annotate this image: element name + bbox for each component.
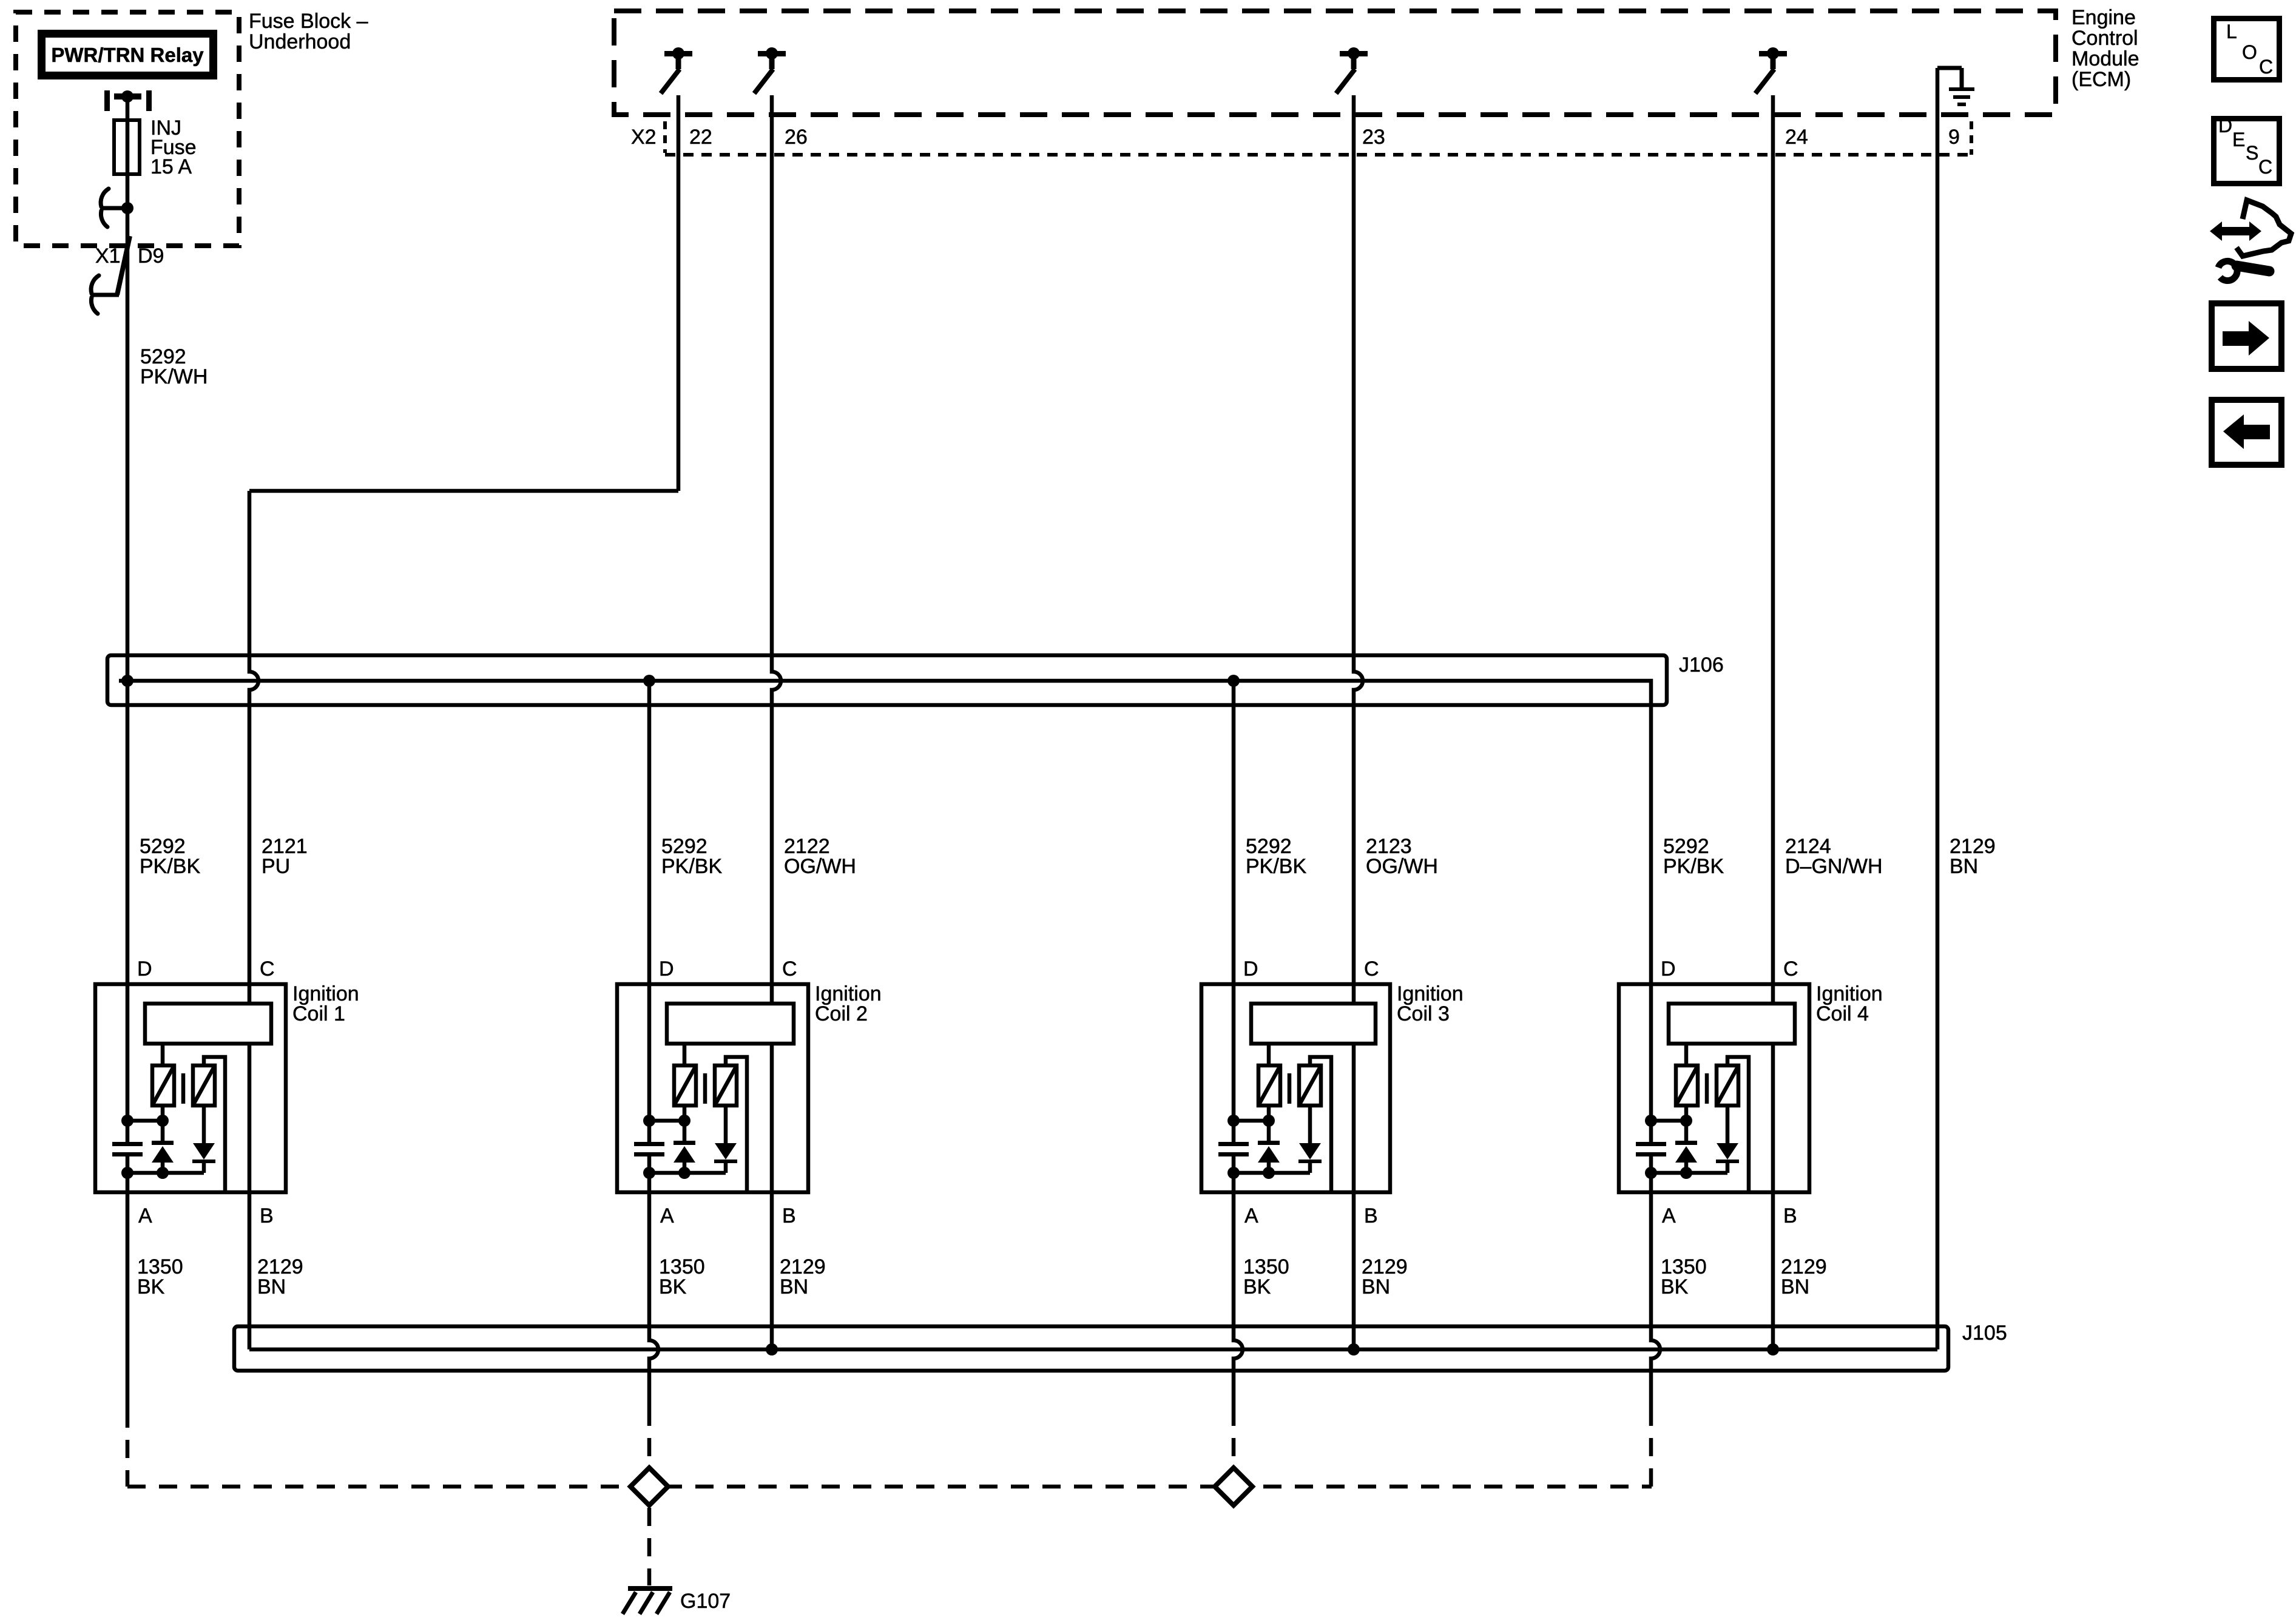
coil 4 pin C label: [1783, 957, 1798, 981]
wire 2129 BN coil4 pin B to J105: [1771, 1044, 1775, 1349]
svg-text:Fuse Block –: Fuse Block –: [249, 10, 368, 33]
wire label 2129 BN: [1950, 835, 1996, 878]
wire 1350 BK coil2 pin A down through J105: [649, 1156, 658, 1468]
svg-text:BN: BN: [1781, 1275, 1809, 1298]
wire 2129 BN from pin9 down to J105: [1936, 68, 1940, 1349]
coil 3 pin D label: [1243, 957, 1258, 981]
wire pin22 down and jog left (2121 circuit): [249, 95, 678, 491]
label Ignition Coil 2: [815, 982, 882, 1025]
wire from relay through fuse down to J106: [126, 96, 130, 681]
coil 2 pin D label: [659, 957, 674, 981]
svg-text:D: D: [1243, 957, 1258, 981]
wire 2129 BN coil1 pin B to J105: [248, 1044, 252, 1349]
svg-text:Coil 1: Coil 1: [292, 1002, 345, 1025]
svg-text:BN: BN: [1950, 855, 1978, 878]
wire 5292 PK/BK to coil3 pin D: [1232, 681, 1236, 1142]
svg-text:C: C: [1364, 957, 1379, 981]
coil 2 pin A label: [660, 1204, 674, 1227]
ignition coil 1: [95, 984, 286, 1192]
pin 22 number label: [689, 126, 712, 149]
coil 1 pin D label: [137, 957, 152, 981]
svg-text:PK/BK: PK/BK: [1246, 855, 1306, 878]
svg-text:A: A: [1662, 1204, 1676, 1227]
svg-text:BK: BK: [659, 1275, 687, 1298]
icon LOC box: [2214, 19, 2280, 80]
coil 1 pin A label: [138, 1204, 152, 1227]
wire 2122 OG/WH from pin26 through J106 to coil2 pin C: [772, 95, 781, 1004]
svg-text:BN: BN: [780, 1275, 808, 1298]
svg-text:BN: BN: [1362, 1275, 1390, 1298]
ground symbol G107: [623, 1586, 672, 1614]
coil 4 wire label 2129 BN: [1781, 1255, 1827, 1298]
svg-text:L: L: [2226, 21, 2237, 42]
svg-text:24: 24: [1785, 126, 1808, 149]
svg-text:B: B: [1364, 1204, 1378, 1227]
connector X1/D9 slash and hook: [91, 236, 130, 314]
wire label 2122 OG/WH: [784, 835, 856, 878]
fuse block label: [249, 10, 368, 53]
coil 1 pin B label: [260, 1204, 274, 1227]
splice diamond on coil3 ground: [1215, 1468, 1252, 1505]
wire label 5292 PK/BK: [140, 835, 200, 878]
ECM pin 9 internal ground: [1937, 68, 1974, 106]
svg-text:X2: X2: [631, 126, 657, 149]
coil 2 pin C label: [782, 957, 797, 981]
svg-text:Coil 3: Coil 3: [1397, 1002, 1450, 1025]
svg-text:B: B: [1783, 1204, 1797, 1227]
ECM pin 24: [1755, 47, 1787, 93]
svg-text:BK: BK: [1661, 1275, 1689, 1298]
coil 3 pin B label: [1364, 1204, 1378, 1227]
svg-text:Coil 2: Coil 2: [815, 1002, 868, 1025]
coil 3 pin A label: [1244, 1204, 1258, 1227]
dashed wire diamond to ground G107: [647, 1508, 652, 1585]
splice pack J106: [107, 655, 1667, 1142]
wire 2129 BN coil3 pin B to J105: [1352, 1044, 1356, 1349]
ECM connector strip dotted line: [665, 153, 1971, 157]
wire 2123 OG/WH from pin23 through J106 to coil3 pin C: [1354, 95, 1363, 1004]
connector strip left dashes: [663, 121, 667, 153]
wire label 2123 OG/WH: [1366, 835, 1438, 878]
wire label 5292 PK/BK: [1246, 835, 1306, 878]
svg-text:X1: X1: [95, 245, 121, 268]
svg-text:OG/WH: OG/WH: [1366, 855, 1438, 878]
wire 1350 BK coil1 pin A down: [126, 1156, 130, 1487]
svg-text:A: A: [660, 1204, 674, 1227]
svg-text:PWR/TRN Relay: PWR/TRN Relay: [51, 44, 204, 66]
svg-text:C: C: [260, 957, 275, 981]
icon arrow left box: [2212, 400, 2281, 465]
svg-text:PK/BK: PK/BK: [1663, 855, 1724, 878]
svg-text:9: 9: [1948, 126, 1960, 149]
wire 1350 BK coil4 pin A down through J105: [1651, 1156, 1660, 1487]
svg-text:BK: BK: [137, 1275, 165, 1298]
svg-text:D: D: [659, 957, 674, 981]
coil 4 pin B label: [1783, 1204, 1797, 1227]
svg-text:C: C: [782, 957, 797, 981]
wire 2129 BN coil2 pin B to J105: [770, 1044, 774, 1349]
svg-text:PU: PU: [262, 855, 290, 878]
wire label 2124 D-GN/WH: [1785, 835, 1883, 878]
wire label 2121 PU: [262, 835, 308, 878]
label J105: [1962, 1322, 2007, 1345]
coil 1 wire label 2129 BN: [257, 1255, 303, 1298]
pin 9 number label: [1948, 126, 1960, 149]
dashed ground line to G107: [127, 1485, 1652, 1489]
wire label 5292 PK/WH: [140, 345, 208, 388]
splice diamond on coil2 ground: [630, 1468, 668, 1505]
wire label 5292 PK/BK: [1663, 835, 1724, 878]
label Ignition Coil 4: [1816, 982, 1883, 1025]
wire label 5292 PK/BK: [661, 835, 722, 878]
coil 3 wire label 1350 BK: [1243, 1255, 1289, 1298]
ECM pin 23: [1336, 47, 1368, 93]
relay PWR/TRN Relay: [42, 34, 214, 76]
svg-text:C: C: [2258, 156, 2272, 178]
svg-text:J105: J105: [1962, 1322, 2007, 1345]
wire coil1 D line through box (5292 PK/BK): [126, 681, 130, 1142]
svg-text:D9: D9: [138, 245, 164, 268]
coil 2 pin B label: [782, 1204, 796, 1227]
pin 26 number label: [785, 126, 808, 149]
switch contact hook inside fuse block: [101, 189, 133, 227]
wire 2121 PU down through J106 to coil1 pin C: [249, 491, 258, 1004]
svg-text:PK/WH: PK/WH: [140, 365, 208, 388]
svg-text:Control: Control: [2071, 27, 2138, 50]
label X2: [631, 126, 657, 149]
pin 23 number label: [1362, 126, 1385, 149]
relay contact symbol: [104, 90, 152, 111]
svg-text:D–GN/WH: D–GN/WH: [1785, 855, 1883, 878]
svg-text:A: A: [138, 1204, 152, 1227]
fuse block underhood dashed box: [16, 12, 239, 246]
label G107: [680, 1590, 731, 1613]
connector strip right dashes: [1970, 121, 1973, 155]
svg-text:C: C: [1783, 957, 1798, 981]
svg-text:PK/BK: PK/BK: [140, 855, 200, 878]
label Ignition Coil 1: [292, 982, 359, 1025]
svg-text:Module: Module: [2071, 47, 2139, 70]
icon DESC box: [2214, 115, 2280, 184]
svg-text:23: 23: [1362, 126, 1385, 149]
svg-text:S: S: [2246, 142, 2258, 164]
svg-text:(ECM): (ECM): [2071, 68, 2131, 91]
svg-text:J106: J106: [1679, 653, 1724, 677]
ignition coil 2: [617, 984, 808, 1192]
svg-text:Underhood: Underhood: [249, 30, 351, 53]
ECM pin 22: [661, 47, 692, 93]
svg-text:26: 26: [785, 126, 808, 149]
coil 3 wire label 2129 BN: [1362, 1255, 1408, 1298]
ECM pin 26: [754, 47, 786, 93]
coil 2 wire label 2129 BN: [780, 1255, 826, 1298]
svg-text:D: D: [137, 957, 152, 981]
svg-text:B: B: [260, 1204, 274, 1227]
coil 3 pin C label: [1364, 957, 1379, 981]
svg-text:PK/BK: PK/BK: [661, 855, 722, 878]
svg-text:B: B: [782, 1204, 796, 1227]
coil 4 pin A label: [1662, 1204, 1676, 1227]
wire 1350 BK coil3 pin A down through J105: [1234, 1156, 1243, 1468]
wire 5292 PK/BK to coil2 pin D: [647, 681, 652, 1142]
ECM label Engine Control Module (ECM): [2071, 6, 2139, 91]
ignition coil 4: [1619, 984, 1809, 1192]
svg-text:BK: BK: [1243, 1275, 1271, 1298]
coil 4 wire label 1350 BK: [1661, 1255, 1707, 1298]
label D9: [138, 245, 164, 268]
svg-text:D: D: [1661, 957, 1676, 981]
icon arrow right box: [2212, 303, 2281, 369]
svg-text:A: A: [1244, 1204, 1258, 1227]
coil 4 pin D label: [1661, 957, 1676, 981]
svg-text:Engine: Engine: [2071, 6, 2136, 29]
ECM dashed box: [614, 11, 2056, 115]
svg-text:G107: G107: [680, 1590, 731, 1613]
svg-text:E: E: [2232, 129, 2245, 150]
wire 2124 D-GN/WH from pin24 to coil4 pin C: [1771, 95, 1775, 1004]
coil 2 wire label 1350 BK: [659, 1255, 705, 1298]
fuse INJ Fuse 15 A: [114, 116, 197, 178]
svg-text:D: D: [2218, 115, 2232, 137]
icon vehicle with double arrow and wrench: [2210, 200, 2291, 280]
pin 24 number label: [1785, 126, 1808, 149]
ignition coil 3: [1201, 984, 1390, 1192]
splice pack J105: [234, 1326, 1948, 1371]
label J106: [1679, 653, 1724, 677]
svg-text:22: 22: [689, 126, 712, 149]
svg-text:C: C: [2259, 56, 2273, 78]
label X1: [95, 245, 121, 268]
svg-text:BN: BN: [257, 1275, 286, 1298]
coil 1 wire label 1350 BK: [137, 1255, 183, 1298]
svg-text:O: O: [2242, 41, 2257, 63]
svg-text:15 A: 15 A: [150, 155, 192, 178]
coil 1 pin C label: [260, 957, 275, 981]
svg-text:OG/WH: OG/WH: [784, 855, 856, 878]
label Ignition Coil 3: [1397, 982, 1464, 1025]
svg-text:Coil 4: Coil 4: [1816, 1002, 1869, 1025]
